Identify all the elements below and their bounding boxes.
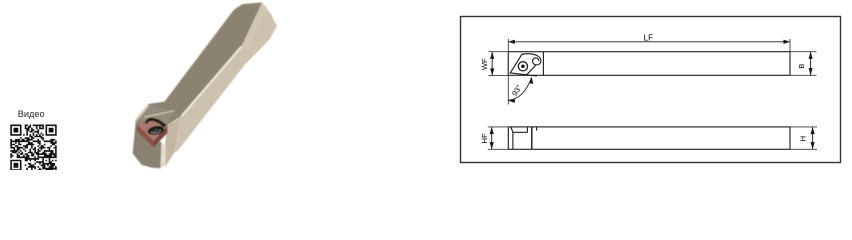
head corner highlight xyxy=(161,143,165,168)
LF dimension xyxy=(509,41,789,43)
head top face (dark) xyxy=(137,104,181,140)
bar side face (light beige) xyxy=(175,3,278,153)
WF top extension xyxy=(489,51,509,53)
head top-left edge highlight xyxy=(135,104,149,122)
countersink bottom xyxy=(513,131,528,133)
insert top face xyxy=(137,120,168,141)
HF dimension xyxy=(491,127,493,149)
svg-text:LF: LF xyxy=(644,33,654,42)
insert hole xyxy=(147,125,165,136)
head front-left face xyxy=(133,119,162,169)
edge highlight between top and side faces xyxy=(182,47,242,117)
head front-right face (beige) xyxy=(165,117,180,166)
head top-right edge highlight xyxy=(167,117,181,126)
H dimension xyxy=(812,127,814,149)
3D tool holder photo xyxy=(133,3,277,169)
LF right extension xyxy=(789,39,791,52)
WF bottom extension xyxy=(489,75,512,77)
svg-text:Видео: Видео xyxy=(18,109,45,119)
head seat line xyxy=(531,127,533,149)
QR code xyxy=(10,125,56,171)
B top extension xyxy=(790,51,817,53)
93 degree arc xyxy=(509,78,532,101)
head end line xyxy=(542,52,544,76)
end chamfer face xyxy=(242,3,268,51)
countersink right wall xyxy=(526,127,528,132)
bar top face (dark taupe) xyxy=(148,3,262,117)
B dimension xyxy=(810,52,812,75)
insert side face right (darker red) xyxy=(154,126,168,148)
top view body xyxy=(508,52,790,76)
svg-text:H: H xyxy=(798,136,807,141)
extension lines top view xyxy=(489,39,817,105)
screw torx silhouette xyxy=(152,129,160,132)
insert rhombus (top view) xyxy=(510,54,539,75)
B bottom extension xyxy=(790,74,817,76)
pocket floor xyxy=(137,106,175,127)
svg-text:B: B xyxy=(797,64,806,69)
insert side face left (dark red) xyxy=(137,124,154,148)
screw countersink slant xyxy=(511,127,513,149)
pocket rim highlight xyxy=(145,111,175,118)
svg-text:WF: WF xyxy=(480,58,489,70)
seat step xyxy=(536,127,538,131)
WF dimension xyxy=(491,52,493,75)
clamp curl xyxy=(523,54,541,65)
top silhouette fillet highlight xyxy=(165,3,262,102)
svg-text:HF: HF xyxy=(480,133,489,143)
side view body xyxy=(508,127,790,149)
screw shine xyxy=(150,129,161,135)
pocket shadow crescent xyxy=(145,118,167,127)
extension lines side view xyxy=(488,127,817,149)
insert hole circles xyxy=(518,62,527,71)
drawing frame xyxy=(461,17,841,163)
LF left extension xyxy=(507,39,509,105)
